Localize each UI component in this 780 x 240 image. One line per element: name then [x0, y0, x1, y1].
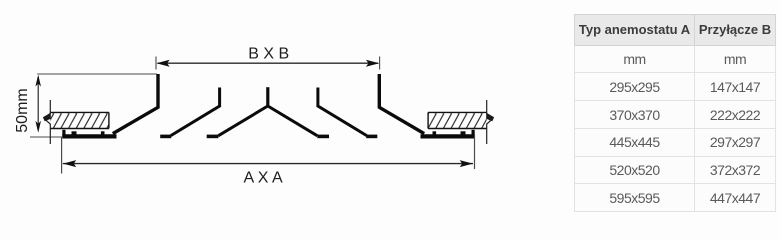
- intermediate vane left: [171, 88, 220, 136]
- ceiling hatched section left: [50, 112, 109, 128]
- dimension A X A: extension line right: [474, 135, 476, 169]
- dimension A X A: line: [63, 163, 473, 165]
- diffuser outer frame left profile: [113, 74, 158, 134]
- svg-text:B X B: B X B: [248, 46, 289, 63]
- extension line bottom: [30, 136, 62, 138]
- svg-text:A X A: A X A: [244, 170, 283, 187]
- ceiling hatched section right: [428, 112, 487, 128]
- vane left foot: [160, 135, 171, 139]
- dimension B X B: extension tick left: [155, 57, 157, 70]
- diffuser outer frame right profile: [379, 74, 424, 134]
- diffuser flange bar right: [421, 134, 475, 138]
- clip left mid: [72, 131, 77, 137]
- dimension 50mm: vertical line: [37, 77, 39, 130]
- clip right end: [472, 130, 475, 137]
- dimension 50mm: bottom arrowhead: [35, 121, 41, 133]
- svg-text:50mm: 50mm: [14, 88, 31, 132]
- dimension A X A: right arrowhead: [460, 160, 473, 167]
- clip left end: [62, 130, 65, 137]
- clip right mid: [461, 131, 466, 137]
- break symbol left: [43, 100, 51, 144]
- clip left inner: [101, 131, 105, 137]
- center cone: [207, 87, 329, 136]
- clip right inner: [433, 131, 437, 137]
- dimension 50mm: top arrowhead: [35, 75, 41, 87]
- diffuser flange bar left: [62, 134, 116, 138]
- dimension A X A: left arrowhead: [63, 160, 76, 167]
- vane right foot: [366, 135, 377, 139]
- dimension B X B: line: [158, 62, 379, 64]
- break symbol right: [486, 100, 494, 144]
- intermediate vane right: [318, 88, 367, 136]
- extension line top (ceiling level): [37, 73, 157, 75]
- dimensions table: [574, 14, 776, 212]
- dimension B X B: left arrowhead: [156, 60, 169, 67]
- dimension B X B: extension tick right: [379, 57, 381, 70]
- dimension B X B: right arrowhead: [366, 60, 379, 67]
- dimension A X A: extension line left: [61, 137, 63, 174]
